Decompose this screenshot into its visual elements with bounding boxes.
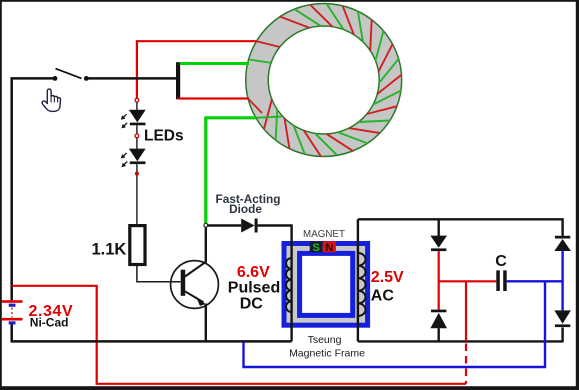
resistor R1 [130,226,145,265]
LED D7 [121,149,146,168]
wire emitter down to ground rail [205,304,207,342]
toroidal coil L1 [246,4,402,157]
wire red DC output to capacitor [439,280,497,282]
wire toroid tap 1 red inside winding [257,41,281,47]
svg-text:LEDs: LEDs [144,127,184,144]
wire green feedback from toroid to collector node [206,118,256,224]
border frame right [576,0,579,390]
label 6.6V [237,264,270,281]
svg-text:Ni-Cad: Ni-Cad [30,316,69,330]
Tseung magnetic frame inner window [300,253,353,315]
wire toroid tap 4 green inside winding [256,117,282,118]
svg-text:Magnetic Frame: Magnetic Frame [289,348,365,360]
label Ni-Cad [30,316,69,330]
node A red ring (LED string top) [135,98,139,102]
wire toroid tap 2 green inside winding [249,59,272,63]
wire red bridge left branch [438,251,440,310]
label C [495,253,507,270]
label 2.34V [29,303,74,320]
border frame left [0,0,2,390]
label DC [240,295,264,312]
primary coil (left leg) [286,226,292,342]
wire left vertical (battery positive to switch) [10,77,13,300]
wire collector up to node [205,226,207,263]
label Fast-Acting Diode [216,192,281,216]
wire ground rail bottom [11,340,292,343]
LED D6 [121,110,146,129]
magnet N pole block [323,241,336,254]
svg-text:Pulsed: Pulsed [228,280,280,297]
diode D5 bottom-right of bridge [554,310,571,327]
secondary coil (right leg) [358,219,366,341]
wire green toroid drive (upper) [180,62,249,65]
label 1.1K [92,240,127,258]
wire bridge rectifier loop [358,219,563,342]
mouse hand cursor [42,89,60,111]
diode D3 bottom-left of bridge [430,310,447,342]
label Pulsed [228,280,280,297]
wire LED2 to resistor [136,164,138,226]
svg-text:2.5V: 2.5V [371,269,404,286]
battery BT1 [2,300,23,324]
transistor Q1 [171,261,219,309]
wire red toroid return (lower) [178,97,249,99]
label Magnetic Frame [289,348,365,360]
node red ring between LEDs [135,134,139,138]
svg-text:S: S [313,242,320,254]
wire collector node to diode [208,224,242,226]
svg-text:MAGNET: MAGNET [303,229,345,240]
wire resistor to transistor base [137,264,181,281]
svg-text:6.6V: 6.6V [237,264,270,281]
wire to LED1 [136,102,138,110]
wire diode to primary coil [258,224,293,226]
wire blue bridge right branch [561,251,563,310]
wire LED1 to LED2 [136,125,138,149]
Tseung magnetic frame outer [284,244,368,326]
svg-text:C: C [495,253,507,270]
diode D1 fast-acting [241,219,257,233]
wire red toroid feed (top) [137,40,257,98]
svg-text:DC: DC [240,295,264,312]
wire red dashed return drop [465,281,467,384]
label 2.5V [371,269,404,286]
diode D2 top-left of bridge [430,219,447,251]
wire red battery positive rail [12,286,466,384]
svg-text:Tseung: Tseung [308,334,342,346]
capacitor C [496,270,506,291]
wire toroid tap 3 red inside winding [248,99,262,114]
svg-text:Diode: Diode [229,202,262,216]
border frame top [0,0,579,2]
svg-text:N: N [325,242,333,254]
magnet S pole block [310,241,323,254]
node junction bar (toroid drive taps) [176,62,180,99]
wire battery negative to ground rail [10,325,13,343]
label LEDs [144,127,184,144]
diode D4 top-right of bridge [554,236,571,251]
wire top horizontal to switch [11,77,55,80]
label AC [371,288,395,305]
label MAGNET [303,229,345,240]
border frame bottom [0,386,579,390]
svg-text:AC: AC [371,288,395,305]
wire blue capacitor to bridge branch [507,280,563,282]
node red dot below LEDs [135,172,139,176]
svg-text:1.1K: 1.1K [92,240,127,258]
node collector junction [204,223,208,227]
label Tseung [308,334,342,346]
switch S1 [53,69,89,81]
wire switch to junction bar [86,77,176,80]
wire blue return loop [244,281,546,367]
